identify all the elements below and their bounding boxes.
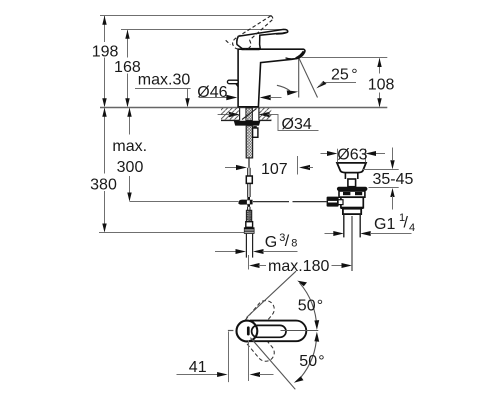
- 50 degree boundary line upper: [246, 271, 296, 317]
- drain flange: [337, 187, 368, 191]
- dimension 198: [104, 16, 106, 106]
- bottom view: cartridge circle: [237, 321, 258, 342]
- svg-text:25°: 25°: [331, 67, 358, 84]
- svg-text:107: 107: [261, 161, 288, 178]
- tailpipe: [343, 214, 345, 237]
- svg-text:Ø34: Ø34: [282, 116, 312, 133]
- bottom view: center mark: [247, 328, 250, 334]
- dimension 35-45: [362, 169, 399, 171]
- svg-text:Ø63: Ø63: [337, 146, 367, 163]
- 25 degree annotation: vertical reference from spout tip: [298, 58, 300, 97]
- dimension 108: [379, 58, 381, 106]
- flexible hose upper: [248, 158, 250, 168]
- drain lower body: [341, 197, 363, 208]
- hose middle: [248, 183, 250, 197]
- svg-text:G1: G1: [374, 216, 395, 233]
- clevis nut: [327, 197, 339, 207]
- svg-text:198: 198: [92, 44, 119, 61]
- bottom view: dashed handle position lower (-50): [245, 331, 277, 365]
- clevis notch: [338, 200, 343, 205]
- faucet body outline: [238, 49, 305, 107]
- lower 50 arc arrow: [301, 335, 317, 378]
- svg-text:Ø46: Ø46: [197, 84, 227, 101]
- threaded shank below nut: [246, 126, 252, 158]
- dimension max.300: [129, 109, 131, 201]
- svg-text:41: 41: [189, 359, 207, 376]
- mounting nut below deck: [234, 121, 261, 126]
- svg-text:380: 380: [90, 177, 117, 194]
- reference line 198 level (top of raised handle): [100, 15, 272, 17]
- dimension diameter 63: [321, 153, 328, 155]
- reference line hose level (max.300) / pull rod: [130, 201, 239, 203]
- dimension 41: [228, 332, 230, 383]
- svg-text:108: 108: [368, 77, 395, 94]
- pop-up pull knob at back of body: [227, 80, 238, 84]
- bottom view: dashed handle position upper (+50): [245, 297, 277, 331]
- drain bottom cap: [343, 209, 361, 214]
- handle raised position (dashed): [226, 16, 273, 49]
- drain upper body with slots: [339, 191, 365, 197]
- extension to max.180: [248, 255, 250, 270]
- bottom view: handle lever outline: [250, 321, 306, 342]
- handle base contact line: [242, 48, 260, 50]
- svg-text:max.: max.: [112, 138, 147, 155]
- hose step block: [246, 222, 253, 228]
- bottom view: centerline left stub: [228, 330, 234, 332]
- dimension G3/8 arrows: [215, 251, 237, 253]
- spout height reference line: [302, 57, 388, 59]
- hose threaded end: [246, 210, 251, 221]
- svg-text:300: 300: [117, 159, 144, 176]
- pull rod guide fitting: [253, 128, 258, 137]
- countertop hatched section right: [259, 108, 272, 120]
- dimension 168: [127, 30, 129, 106]
- svg-text:max.30: max.30: [138, 72, 191, 89]
- spout aerator dark lip: [296, 51, 304, 58]
- dimension 107: [225, 167, 238, 169]
- svg-text:/: /: [285, 233, 290, 250]
- countertop reference line: [100, 107, 387, 109]
- svg-text:35-45: 35-45: [373, 171, 414, 188]
- svg-text:4: 4: [409, 222, 415, 234]
- hose union fitting: [246, 176, 252, 183]
- 50 degree boundary line lower: [250, 338, 295, 390]
- dimension G1 1/4: [325, 233, 335, 235]
- upper 50 arc arrow: [300, 283, 317, 327]
- svg-text:G: G: [265, 234, 277, 251]
- handle (solid, rest position): [237, 29, 288, 49]
- G3/8 nut: [244, 227, 255, 234]
- 25 degree stream diagonal: [299, 58, 318, 97]
- bottom view: centerline right: [281, 330, 319, 332]
- svg-text:8: 8: [291, 238, 297, 250]
- threaded shank inside deck hole: [242, 108, 257, 121]
- dimension diameter 34: [229, 112, 240, 118]
- hose below coupling: [248, 207, 250, 211]
- countertop hatched section left: [221, 108, 240, 120]
- svg-text:/: /: [404, 215, 409, 232]
- svg-text:max.180: max.180: [268, 258, 329, 275]
- pop-up waste drain: cup: [337, 163, 366, 173]
- 25 degree arc arrow: [277, 85, 290, 91]
- reference line 380 bottom: [99, 232, 244, 234]
- drain neck: [344, 173, 346, 179]
- dimension max.180: [249, 263, 260, 268]
- drain knob: [348, 179, 356, 187]
- dimension 380: [104, 109, 106, 232]
- svg-text:50°: 50°: [298, 298, 323, 315]
- reference line 168 level (top of handle): [121, 29, 286, 31]
- svg-text:50°: 50°: [299, 353, 324, 370]
- pull rod to drain: [253, 201, 289, 203]
- knob support diagonal: [236, 84, 238, 87]
- quick coupling cross fitting: [247, 197, 250, 200]
- bottom view: inner slot: [252, 325, 286, 337]
- G3/8 connection pipe: [245, 234, 247, 258]
